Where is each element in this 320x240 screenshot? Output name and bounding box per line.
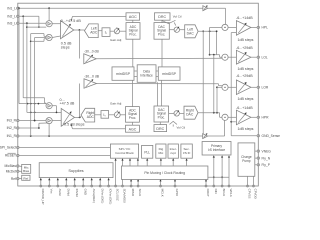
svg-text:ADC: ADC bbox=[90, 31, 98, 35]
input routing bundle vertical 2 (IN2_L down to right mixer) bbox=[23, 16, 46, 103]
svg-text:PLL: PLL bbox=[144, 151, 150, 155]
wire charge pump to Fly_P bbox=[255, 164, 257, 166]
junction on IN1_L at bundle bbox=[18, 7, 20, 9]
svg-text:-6...+14dB: -6...+14dB bbox=[236, 16, 253, 20]
Pin Muxing / Clock Routing box bbox=[122, 166, 208, 179]
wire RESET to control block bbox=[19, 155, 110, 157]
wire filter to gain adj right bbox=[109, 114, 115, 116]
svg-text:Proc.: Proc. bbox=[129, 116, 137, 120]
bypass attenuator amp top (IN1_L to HPL) bbox=[203, 5, 208, 11]
svg-text:Vss: Vss bbox=[49, 189, 53, 194]
wire pin muxing to PLL bbox=[146, 158, 148, 166]
wire IN1_R rise into mixer M2B bbox=[48, 124, 50, 136]
wire right PGA junction to ADC bbox=[80, 116, 81, 117]
wire LOL driver to pin bbox=[251, 56, 257, 58]
svg-text:IOVdd: IOVdd bbox=[75, 189, 79, 198]
pin SDA/MOSI bbox=[121, 158, 126, 203]
svg-text:1dB steps: 1dB steps bbox=[238, 67, 254, 71]
DAC signal processing box right bbox=[154, 106, 169, 122]
supply pin Vss bbox=[48, 178, 53, 194]
junction on IN3_L at bundle bbox=[26, 22, 28, 24]
wire IN1_R bypass (bottom) bbox=[19, 120, 225, 136]
mixer M2 third input line bbox=[31, 39, 47, 42]
ADC signal processing box left bbox=[126, 23, 140, 40]
DAC U3 Left DAC bbox=[185, 25, 198, 38]
wire mixer M2 to left PGA bbox=[52, 36, 60, 38]
svg-text:+47.5 dB: +47.5 dB bbox=[60, 102, 75, 106]
svg-text:Vol Ctl: Vol Ctl bbox=[173, 14, 182, 18]
wire left bypass to LOL mixer bbox=[96, 57, 222, 59]
svg-text:-6...+14dB: -6...+14dB bbox=[236, 106, 253, 110]
wire pin muxing to control block A bbox=[129, 158, 131, 166]
svg-text:miniDSP: miniDSP bbox=[162, 72, 177, 76]
supply pin AVss(REF) bbox=[91, 178, 96, 203]
op-amp MICPGA right (0..+47.5dB) bbox=[61, 108, 74, 126]
svg-text:-6...+29dB: -6...+29dB bbox=[236, 74, 253, 78]
svg-text:I²S IF: I²S IF bbox=[183, 151, 191, 155]
svg-text:DVss (DIG): DVss (DIG) bbox=[100, 189, 104, 204]
svg-text:IN1_R: IN1_R bbox=[7, 134, 17, 138]
wire IN1_L bypass (top) bbox=[19, 8, 226, 24]
DRC box right bbox=[154, 125, 167, 132]
AGC box left bbox=[126, 13, 140, 20]
wire vol circle to Left DAC bbox=[180, 29, 185, 31]
input routing bundle vertical 4 (IN1_R up to left mixer) bbox=[30, 34, 46, 136]
pin SPI_Select bbox=[0, 146, 19, 150]
Interrupt box bbox=[168, 144, 178, 158]
value label Vol Ctl (left) with selector chevron bbox=[162, 14, 182, 25]
svg-text:Pump: Pump bbox=[242, 159, 251, 163]
supply pin IOVdd bbox=[74, 178, 79, 197]
input routing bundle vertical 5 (IN3_R up to left mixer) bbox=[34, 38, 46, 122]
svg-text:Interface: Interface bbox=[140, 73, 153, 77]
svg-text:IN1_L: IN1_L bbox=[7, 6, 16, 10]
DAC signal processing box left bbox=[154, 23, 169, 40]
wire IN3_R bbox=[19, 120, 46, 122]
gain-adjust circle right ADC bbox=[114, 110, 120, 117]
svg-text:Pin Muxing / Clock Routing: Pin Muxing / Clock Routing bbox=[144, 171, 185, 175]
pin VNEG bbox=[257, 149, 271, 153]
wire miniDSP_A down to right ADC sigproc bbox=[132, 80, 134, 106]
svg-text:VNEG: VNEG bbox=[262, 149, 272, 153]
wire DAC sigproc to vol circle left bbox=[169, 29, 174, 31]
svg-text:Control Block: Control Block bbox=[115, 151, 134, 155]
pin IN1_L bbox=[7, 6, 19, 10]
value label 0.5 dB steps (left PGA) bbox=[61, 42, 72, 50]
mixer LOL output bbox=[222, 54, 228, 60]
svg-text:Ref: Ref bbox=[11, 177, 16, 181]
svg-text:steps: steps bbox=[61, 46, 70, 50]
miniDSP_D box bbox=[158, 67, 180, 80]
wire vol circle to Right DAC bbox=[179, 112, 184, 114]
wire IN2_L bbox=[19, 16, 40, 28]
svg-text:HPR: HPR bbox=[262, 116, 270, 120]
pin Fly_P bbox=[257, 163, 271, 167]
gain-adjust circle left ADC bbox=[114, 27, 119, 34]
wire charge pump to VNEG bbox=[255, 150, 257, 152]
Primary I2S Interface box bbox=[202, 142, 231, 156]
filter box left decimation bbox=[102, 28, 110, 37]
svg-text:DVdd: DVdd bbox=[66, 189, 70, 197]
wire Left DAC output junction bbox=[198, 27, 222, 57]
pin LOR bbox=[257, 86, 269, 90]
value label 0...+47.5 dB (right PGA) bbox=[60, 98, 75, 106]
wire GND_Sense bbox=[230, 33, 257, 136]
junction on IN1_R below mixer M4in bbox=[48, 135, 50, 137]
svg-text:LOL: LOL bbox=[262, 55, 268, 59]
pin Fly_N bbox=[257, 156, 271, 160]
svg-text:AVss(REF): AVss(REF) bbox=[92, 189, 96, 203]
pin DIN bbox=[213, 155, 218, 193]
Data Interface box bbox=[137, 65, 156, 83]
svg-text:GND: GND bbox=[83, 189, 87, 195]
svg-text:ADC: ADC bbox=[87, 115, 95, 119]
wire LOR driver to pin bbox=[251, 86, 257, 88]
svg-text:1dB steps: 1dB steps bbox=[238, 97, 254, 101]
pin Ref bbox=[11, 177, 19, 181]
wire DAC-L cross route down to right bypass amp bbox=[202, 30, 204, 133]
svg-text:DRC: DRC bbox=[156, 127, 164, 131]
svg-text:BCLK: BCLK bbox=[222, 189, 226, 197]
svg-text:LOR: LOR bbox=[262, 86, 269, 90]
pin IN2_R bbox=[7, 126, 19, 130]
svg-text:Proc.: Proc. bbox=[129, 32, 137, 36]
pin LOL bbox=[257, 55, 268, 59]
input routing bundle vertical 1 (IN1_L down to right mixer) bbox=[19, 8, 46, 103]
supply pin IOVss (DIG) bbox=[108, 178, 113, 205]
pin DOUT bbox=[205, 179, 210, 197]
svg-text:Proc.: Proc. bbox=[158, 32, 166, 36]
pin SCLK bbox=[137, 179, 142, 196]
wire HPL mixer to driver bbox=[228, 26, 236, 28]
op-amp LOR driver bbox=[236, 80, 251, 95]
wire pin muxing to control block B bbox=[137, 158, 139, 166]
pin IN1_R bbox=[7, 134, 19, 138]
ADC U2 Right ADC bbox=[81, 108, 95, 122]
wire AGC to ADC sigproc connector (left) bbox=[132, 20, 134, 22]
mixer LOR output bbox=[222, 84, 228, 90]
svg-text:HPL: HPL bbox=[262, 26, 269, 30]
svg-text:MCLK: MCLK bbox=[161, 189, 165, 197]
mixer HPL output bbox=[222, 24, 228, 30]
node right PGA output junction bbox=[75, 84, 82, 119]
svg-text:SCL/SSZ: SCL/SSZ bbox=[116, 189, 120, 201]
svg-text:WCLK: WCLK bbox=[229, 189, 233, 197]
svg-text:DRVDD_HP: DRVDD_HP bbox=[41, 189, 45, 205]
Digital Mic box bbox=[156, 144, 166, 158]
volume control circle right DAC bbox=[174, 110, 179, 116]
mixer M2 (left PGA lower input selector) bbox=[46, 34, 52, 40]
volume control circle left DAC bbox=[174, 27, 179, 33]
pin HPR bbox=[257, 116, 269, 120]
wire DRC to DAC sigproc connector (left) bbox=[161, 20, 163, 22]
mixer M1 (left PGA upper input selector) bbox=[46, 21, 52, 27]
wire IN3_L bbox=[19, 22, 46, 24]
wire ADC to filter box bbox=[98, 30, 102, 32]
svg-text:IN3_R: IN3_R bbox=[7, 119, 17, 123]
mixer M1 lower input line bbox=[27, 26, 46, 28]
svg-text:0.5 dB steps: 0.5 dB steps bbox=[64, 123, 85, 127]
wire ADC sigproc to AGC connector (right) bbox=[132, 122, 134, 125]
junction on IN1_R at bundle bbox=[30, 135, 32, 137]
svg-text:miniDSP: miniDSP bbox=[116, 72, 131, 76]
supply pin DVss (DIG) bbox=[99, 178, 104, 204]
svg-text:SDA/MOSI: SDA/MOSI bbox=[123, 189, 127, 203]
pin IN2_L bbox=[7, 15, 19, 19]
wire HPR driver to pin bbox=[251, 116, 257, 118]
svg-text:IOVss (DIG): IOVss (DIG) bbox=[109, 189, 113, 205]
wire mixer M3 to right PGA bbox=[52, 106, 61, 114]
svg-text:CPVSS: CPVSS bbox=[248, 189, 252, 199]
input routing bundle vertical 3 (IN3_L down to right PGA input) bbox=[26, 23, 56, 113]
svg-text:-30...0 dB: -30...0 dB bbox=[84, 75, 99, 79]
wire LOR mixer to driver bbox=[228, 86, 236, 88]
mixer HPR output bbox=[222, 114, 228, 120]
Mic Bias block bbox=[22, 164, 31, 173]
wire LOL mixer to driver bbox=[228, 56, 236, 58]
svg-text:IN3_L: IN3_L bbox=[7, 21, 16, 25]
filter box right decimation bbox=[101, 111, 109, 119]
svg-text:Gain Adj: Gain Adj bbox=[110, 102, 122, 106]
SPI/I2C control block bbox=[110, 144, 138, 158]
pin MicDet bbox=[6, 170, 19, 174]
svg-text:DOUT: DOUT bbox=[206, 189, 210, 197]
op-amp right analog bypass (-30..0 dB) bbox=[84, 79, 97, 88]
pin HPL bbox=[257, 26, 268, 30]
svg-text:RESET: RESET bbox=[5, 154, 16, 158]
wire filter to gain adj bbox=[110, 30, 114, 32]
pin WCLK bbox=[228, 155, 233, 197]
wire DAC sigproc to vol circle right bbox=[169, 112, 174, 114]
DAC U4 Right DAC bbox=[184, 106, 198, 119]
svg-text:DRC: DRC bbox=[158, 15, 166, 19]
svg-text:CPVDD: CPVDD bbox=[254, 189, 258, 199]
pin CPVSS bbox=[247, 176, 252, 198]
wire DAC sigproc to DRC connector (right) bbox=[159, 122, 161, 125]
PLL box bbox=[142, 145, 153, 158]
svg-text:DIN: DIN bbox=[214, 189, 218, 194]
wire data interface down to right DAC sigproc bbox=[158, 80, 162, 106]
node left PGA output junction bbox=[74, 29, 85, 58]
Charge Pump box bbox=[238, 143, 255, 176]
junction on IN1_L above mixer M1 bbox=[48, 7, 50, 9]
AGC box right bbox=[126, 125, 140, 132]
svg-text:AVdd: AVdd bbox=[58, 189, 62, 196]
wire mixer M4 to right PGA bbox=[52, 120, 61, 122]
junctions on mixer M3 input line bbox=[27, 103, 40, 105]
mixer M4 (right PGA lower input selector) bbox=[46, 118, 52, 124]
wire HPR mixer to driver bbox=[228, 116, 236, 118]
wire AGC left feedback to PGA bbox=[71, 16, 126, 21]
pin GND_Sense bbox=[257, 134, 280, 138]
svg-text:Mic: Mic bbox=[158, 151, 163, 155]
svg-text:MISO: MISO bbox=[131, 189, 135, 197]
op-amp HPR driver bbox=[236, 110, 251, 125]
svg-text:Gain Adj: Gain Adj bbox=[110, 38, 122, 42]
wire Right DAC output junction bbox=[198, 55, 222, 118]
wire primary IF bus to pin muxing bbox=[208, 176, 229, 178]
wire HPL driver to pin bbox=[251, 26, 257, 28]
svg-text:-6...+29dB: -6...+29dB bbox=[236, 46, 253, 50]
wire IN1_L drop into mixer M1 bbox=[48, 8, 50, 20]
wire miniDSP_A to data interface bbox=[134, 71, 137, 77]
svg-text:1dB steps: 1dB steps bbox=[238, 38, 254, 42]
wire right bypass to LOR mixer bbox=[97, 84, 223, 86]
wire data interface to miniDSP_D bbox=[156, 71, 158, 77]
pin IN3_R bbox=[7, 119, 19, 123]
svg-text:I²S Interface: I²S Interface bbox=[208, 148, 226, 152]
ADC signal processing box right bbox=[126, 107, 140, 123]
svg-text:Ref: Ref bbox=[23, 176, 28, 180]
svg-text:IN2_R: IN2_R bbox=[7, 126, 17, 130]
bypass attenuator amp bottom (IN1_R to HPR) bbox=[203, 133, 208, 139]
svg-text:Fly_P: Fly_P bbox=[262, 163, 271, 167]
mixer M3 (right PGA upper input selector) bbox=[46, 103, 52, 109]
supply pin GND bbox=[82, 178, 87, 195]
wire pin muxing to Sec I2S IF bbox=[186, 158, 188, 166]
supply pin DVdd bbox=[65, 178, 70, 196]
pin MicBias bbox=[4, 164, 19, 168]
Supplies box bbox=[39, 163, 113, 178]
Secondary I2S IF box bbox=[181, 144, 192, 158]
pin BCLK bbox=[221, 155, 226, 196]
svg-text:MicBias: MicBias bbox=[4, 164, 16, 168]
chip outline border bbox=[18, 3, 258, 186]
wire ADC to filter box right bbox=[95, 114, 101, 116]
wire Ref pin to block bbox=[19, 177, 22, 179]
svg-text:MicDet: MicDet bbox=[6, 170, 16, 174]
svg-text:GND_Sense: GND_Sense bbox=[262, 134, 281, 138]
svg-text:SPI_Select: SPI_Select bbox=[0, 146, 16, 150]
wire gain adj to ADC signal proc right bbox=[120, 114, 125, 116]
junction on IN2_L at bundle bbox=[22, 15, 24, 17]
DRC box left bbox=[155, 13, 171, 20]
svg-text:DAC: DAC bbox=[187, 31, 195, 35]
wire MicDet pin to block bbox=[19, 170, 22, 172]
pin RESET bbox=[5, 153, 19, 157]
svg-text:IN2_L: IN2_L bbox=[7, 15, 16, 19]
wire MicBias pin to block bbox=[19, 165, 22, 168]
svg-text:1dB steps: 1dB steps bbox=[238, 127, 254, 131]
wire pin muxing to Interrupt bbox=[172, 158, 174, 166]
supply pin AVdd bbox=[57, 178, 62, 196]
wire gain adj to ADC signal proc bbox=[120, 30, 127, 32]
op-amp HPL driver bbox=[236, 21, 251, 36]
svg-text:Vol Ctl: Vol Ctl bbox=[177, 126, 186, 130]
miniDSP_A box bbox=[112, 67, 134, 80]
svg-text:Bias: Bias bbox=[23, 169, 29, 173]
wire mixer M1 to left PGA bbox=[52, 23, 60, 25]
wire IN2_R bbox=[19, 123, 47, 128]
op-amp left analog bypass (-30..0 dB) bbox=[84, 54, 97, 64]
op-amp MICPGA left (0..+47.5dB) bbox=[61, 21, 74, 39]
op-amp LOL driver bbox=[236, 50, 251, 64]
svg-text:Proc.: Proc. bbox=[158, 115, 166, 119]
svg-text:-30...0 dB: -30...0 dB bbox=[84, 49, 99, 53]
Ref block bbox=[22, 175, 30, 180]
svg-text:rupt: rupt bbox=[171, 151, 176, 155]
pin CPVDD bbox=[253, 176, 258, 198]
junction on IN3_R at bundle bbox=[34, 120, 36, 122]
svg-text:Fly_N: Fly_N bbox=[262, 156, 271, 160]
wire charge pump to Fly_N bbox=[255, 157, 257, 159]
value label Vol Ctl (right) with selector chevron bbox=[170, 121, 186, 129]
wire left DAC sigproc down to miniDSP_D bbox=[161, 39, 163, 67]
pin MCLK bbox=[159, 179, 164, 197]
pin IN3_L bbox=[7, 21, 19, 25]
junction on IN2_R at bundle bbox=[38, 127, 40, 129]
wire SPI_Select to control block bbox=[19, 147, 110, 149]
svg-text:DAC: DAC bbox=[186, 113, 194, 117]
wire ADC sigproc down to miniDSP_A bbox=[132, 39, 134, 67]
wire pin muxing to Dig Mic bbox=[160, 158, 162, 166]
ADC U1 Left ADC bbox=[85, 24, 99, 38]
supply pin DRVDD_HP bbox=[40, 178, 45, 205]
svg-text:AGC: AGC bbox=[129, 127, 137, 131]
pin MISO bbox=[130, 179, 135, 197]
pin GPIO bbox=[174, 179, 179, 196]
wire AGC right feedback to PGA bbox=[71, 124, 126, 129]
svg-text:SCLK: SCLK bbox=[138, 189, 142, 197]
pin SCL/SSZ bbox=[115, 158, 120, 200]
svg-text:GPIO: GPIO bbox=[175, 189, 179, 197]
svg-text:Supplies: Supplies bbox=[68, 168, 83, 173]
svg-text:AGC: AGC bbox=[129, 15, 137, 19]
